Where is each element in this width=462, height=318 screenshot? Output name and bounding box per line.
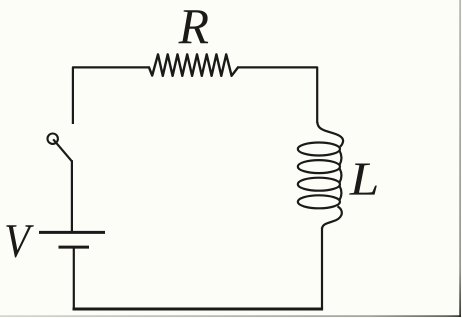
inductor loop 1 (298, 143, 340, 156)
resistor R zigzag (149, 54, 238, 75)
wire right side below inductor (321, 228, 323, 309)
wire switch to battery (71, 160, 73, 231)
inductor label L (349, 164, 377, 195)
switch pivot circle (48, 134, 58, 144)
page border bottom edge (0, 315, 461, 317)
wire resistor to top-right corner and down (237, 67, 317, 123)
wire top-left horizontal segment (73, 67, 150, 124)
inductor loop 2 (298, 160, 340, 173)
inductor L coil entry curve (317, 122, 343, 147)
battery label V (6, 225, 34, 257)
page border right edge (459, 0, 461, 317)
inductor loop 4 (298, 195, 340, 208)
switch blade (53, 139, 72, 161)
battery V short plate (negative) (59, 246, 90, 249)
inductor coil exit curve (322, 206, 342, 228)
inductor connector 2-3 (340, 169, 342, 183)
inductor connector 1-2 (340, 151, 342, 165)
battery V long plate (positive) (39, 231, 105, 234)
wire battery to bottom (73, 247, 75, 308)
inductor loop 3 (298, 178, 340, 191)
wire bottom horizontal (73, 308, 324, 311)
resistor label R (178, 10, 208, 43)
inductor connector 3-4 (340, 186, 342, 200)
